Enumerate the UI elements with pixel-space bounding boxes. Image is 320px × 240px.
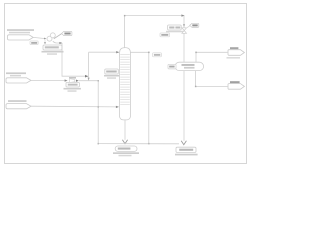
valve V1 icon [47,36,52,41]
flow arrow down riser stub [88,78,90,81]
mixer M1 name box [66,82,79,87]
wire S1 to valve V1 [33,37,45,38]
stream tag S6 pennant [228,84,244,90]
valve V1 info text [42,51,64,53]
drum D1 name text [182,64,195,66]
mixer M1 outlet wire down [79,81,98,144]
junction node top left corner [124,15,126,17]
energy tag E2 text [192,24,197,26]
unit B2 info text [175,154,198,156]
energy stream tag E1 [62,31,72,35]
column side draw wire [130,52,148,143]
stream tag S6 label text [230,81,240,83]
bottom collection wire [98,143,179,145]
flow arrow into valve V2 [183,24,185,27]
stream tag S4 (feed 3) label text [8,100,27,102]
column T1 name box [105,69,119,74]
junction node bottom left corner [98,143,100,145]
mixer M1 icon [70,79,75,83]
column T1 trays [120,55,130,105]
stream tag S5 pennant [228,50,244,56]
valve V1 inlet stub [44,39,46,42]
stream tag S3 (feed 2) pennant [6,78,31,83]
flow arrow into column top inlet [116,51,119,53]
stream id tag 02 [30,41,38,45]
drawing border frame [5,4,247,164]
stream tag S3 (feed 2) label text [6,72,26,74]
valve V1 name text [45,46,59,48]
overhead vapor wire to top right [125,16,184,28]
junction node distillate corner [195,52,197,54]
open arrow into bottoms unit B1 [122,140,127,144]
drum D1 info text [184,67,195,69]
valve V2 info text [166,31,183,33]
unit B1 info text [113,152,139,154]
stream id tag at drum inlet [168,64,176,69]
flow arrow into column bottom inlet [116,106,119,108]
junction node at mixer outlet corner [98,80,100,82]
stream tag S1 (feed 1) pennant [8,35,34,40]
valve V1 name box [43,45,62,50]
column T1 name text [106,71,117,73]
valve V2 name text [169,27,174,29]
wire S4 to column bottom inlet [31,105,118,108]
stream id tag 05 [153,53,162,57]
unit B2 name box [176,147,196,152]
wire V1 to riser [62,43,88,76]
energy stream tag E2 [190,23,199,27]
wire V2 to drum D1 [183,33,185,62]
stream tag S5 label text [230,47,238,49]
junction node on feed3 wire [98,106,100,108]
junction node product corner [195,86,197,88]
product wire drum to tag S6 [196,71,228,87]
stream tag S5 faint info text [227,57,241,59]
energy tag E1 text [64,33,70,35]
stream id tag 04 [160,33,170,37]
flow arrow into mixer left [65,79,68,81]
wire V2 to energy tag E2 [186,26,190,29]
flow arrow V1 outlet [59,42,62,44]
riser wire to column top [88,52,90,80]
mixer M1 label above [69,77,76,79]
valve V2 name box [168,25,182,30]
column bottoms wire [124,120,126,143]
open arrow into unit B2 [181,141,186,145]
drum D1 vessel [175,62,204,70]
flow arrow into riser junction [85,75,88,78]
flow arrow on wire S1 [44,38,47,40]
column T1 info text [104,75,119,77]
flow arrow at mixer outlet [76,80,79,82]
flow arrow on overhead wire [181,14,184,16]
valve V1 outlet wire [53,41,62,43]
column T1 top nozzle wire [124,16,126,48]
distillate wire drum to tag S5 [196,52,228,62]
junction node bottom right of side draw [148,143,150,145]
unit B1 name text [118,148,131,150]
wire riser to column top inlet [89,51,119,53]
mixer M1 info text [64,88,81,90]
column T1 vessel [120,48,131,120]
junction node side draw corner [148,52,150,54]
unit B1 name box [115,146,137,151]
stream tag S1 (feed 1) label text [7,29,34,33]
drum liquid wire down to unit B2 [183,71,185,145]
stream tag S4 (feed 3) pennant [6,104,31,109]
wire S3 to mixer M1 [31,79,66,81]
mixer M1 name text [68,84,78,86]
unit B2 name text [179,149,193,151]
valve V2 icon [182,28,187,34]
wire V1 to energy tag E1 [54,34,62,39]
